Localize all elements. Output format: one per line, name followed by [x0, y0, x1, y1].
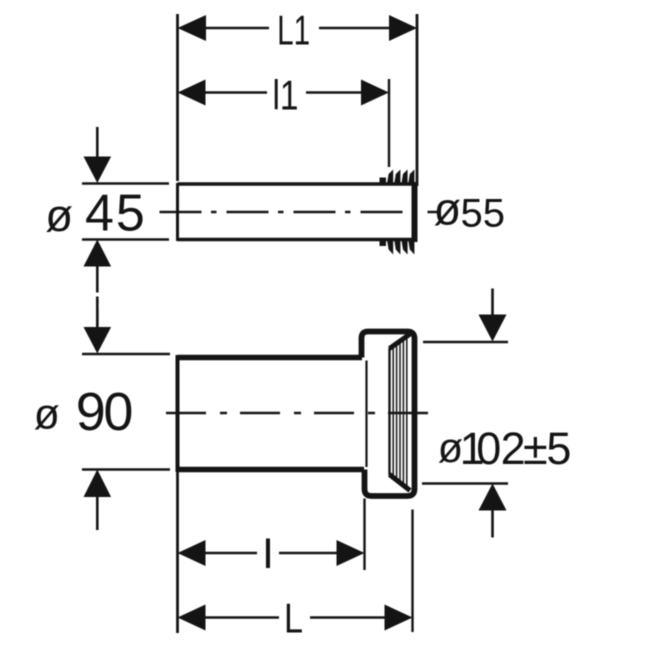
vertical arrow above tube (d90 top): [84, 300, 112, 354]
svg-text:I: I: [262, 530, 274, 578]
svg-text:45: 45: [85, 185, 147, 243]
svg-text:ø: ø: [45, 190, 73, 241]
flange socket ribs: [393, 337, 407, 488]
extension lines d90: [82, 354, 170, 470]
flange outline: [362, 332, 415, 497]
svg-text:55: 55: [461, 191, 506, 235]
extension lines d45: [82, 184, 169, 240]
tube/flange step face edge: [365, 361, 367, 468]
svg-text:L: L: [284, 594, 303, 641]
pipe spigot teeth bottom: [380, 239, 415, 255]
flange socket left boundary: [388, 348, 390, 475]
tube body (bottom figure): [178, 355, 365, 472]
flange socket upper lip: [390, 334, 411, 349]
d102 bottom arrow: [422, 484, 508, 538]
vertical arrow above pipe (d45 top): [84, 127, 112, 183]
centerline top figure: [160, 211, 442, 213]
svg-text:l1: l1: [273, 72, 299, 119]
pipe spigot teeth top: [380, 170, 415, 186]
pipe body (top figure): [178, 183, 416, 241]
svg-text:102±5: 102±5: [460, 423, 572, 474]
vertical arrow below tube (d90 bottom): [84, 470, 112, 531]
dimension L: [178, 470, 413, 633]
pipe right end wall: [412, 182, 418, 242]
dimension L1: [178, 14, 418, 186]
svg-text:ø: ø: [434, 184, 462, 235]
d102 top arrow: [423, 289, 508, 343]
vertical arrow below pipe (d45 bottom): [84, 240, 112, 327]
svg-text:90: 90: [76, 382, 132, 442]
centerline bottom figure: [166, 412, 431, 414]
svg-text:L1: L1: [277, 7, 310, 54]
flange socket lower lip: [390, 475, 411, 491]
dimension l1: [178, 79, 390, 167]
dimension I: [178, 499, 365, 571]
svg-text:ø: ø: [34, 391, 60, 439]
